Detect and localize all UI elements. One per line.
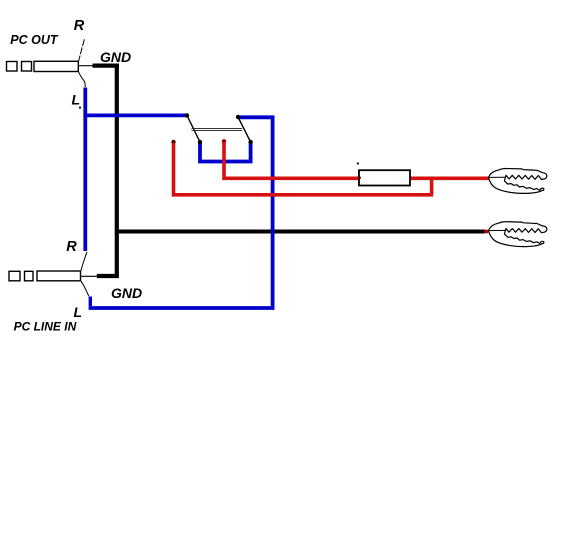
svg-text:L: L bbox=[74, 304, 83, 320]
svg-text:PC OUT: PC OUT bbox=[10, 33, 59, 47]
svg-text:R: R bbox=[66, 239, 77, 255]
svg-text:R: R bbox=[74, 18, 85, 34]
svg-text:GND: GND bbox=[100, 49, 131, 65]
svg-text:GND: GND bbox=[111, 285, 142, 301]
svg-text:L: L bbox=[72, 92, 81, 108]
svg-text:PC LINE IN: PC LINE IN bbox=[14, 320, 77, 334]
